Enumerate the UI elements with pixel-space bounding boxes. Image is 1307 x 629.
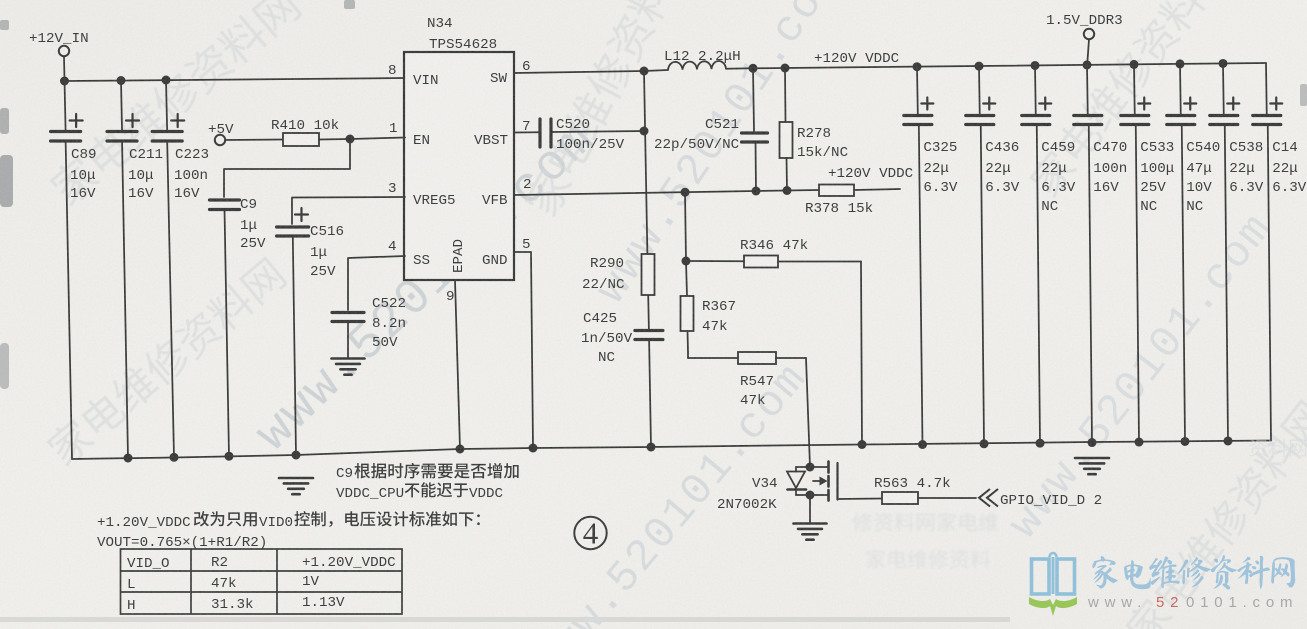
junction EPAD bottom	[456, 445, 465, 454]
junction L12 output	[749, 64, 758, 73]
wire SS pin4 to C522	[348, 256, 405, 310]
junction C9 bottom	[225, 452, 234, 461]
scan edge artifacts	[0, 0, 1307, 389]
resistor R346 47k	[686, 260, 744, 262]
watermark band 1	[46, 0, 303, 209]
bleed-through text 1	[852, 512, 998, 532]
wire R563 to GPIO port	[918, 497, 976, 499]
wire R410 to EN node	[319, 138, 350, 141]
wire GND pin5 to bottom bus	[514, 252, 533, 448]
junction R278 bottom	[783, 186, 792, 195]
resistor R367 47k	[686, 261, 687, 296]
capacitor C520 100n/25V	[538, 119, 541, 147]
wire +12V bus to VIN	[65, 78, 405, 81]
watermark band 2	[43, 254, 289, 469]
wire R547 down to V34 drain (crosses ground bus)	[806, 358, 810, 467]
wire +5V to R410	[225, 139, 283, 142]
capacitor C223	[166, 81, 167, 131]
wire VFB down to divider	[685, 192, 686, 261]
resistor R378 15k	[819, 185, 854, 197]
wire C521 top	[753, 68, 754, 131]
capacitor C89	[65, 81, 66, 131]
ground under V34	[794, 524, 827, 540]
capacitor C436	[978, 66, 981, 115]
wire R346 to ground bus	[861, 262, 862, 445]
junction SW node	[640, 67, 649, 76]
node 1.5V_DDR3 terminal	[1084, 29, 1094, 39]
resistor R563 4.7k	[882, 492, 918, 504]
junction snubber bottom	[647, 443, 656, 452]
junction C211 bottom	[124, 454, 133, 463]
inductor L12 2.2uH	[668, 61, 726, 70]
wire 1.5V_DDR3 down	[1087, 39, 1089, 65]
transistor V34 2N7002K	[806, 463, 815, 472]
sheet number circle 4	[574, 517, 606, 549]
wire +1.20V VDDC output bus	[753, 63, 1266, 68]
wire SW node down (snubber branch)	[644, 71, 645, 131]
node +5V terminal	[215, 135, 225, 145]
capacitor C14	[1265, 63, 1268, 115]
capacitor C521 22p/50V/NC	[742, 131, 768, 134]
wire V34 gate to R563	[838, 498, 883, 501]
wire VBST pin7 to C520	[514, 131, 540, 133]
capacitor C9	[210, 198, 240, 201]
wire EN node down to C9 branch	[224, 139, 350, 197]
junction EN node	[346, 135, 355, 144]
junction R346 bottom	[858, 440, 867, 449]
wire L12 to output node	[726, 67, 753, 70]
watermark band 4	[520, 0, 698, 219]
wire SW node to L12	[644, 70, 668, 71]
capacitor C522	[332, 311, 364, 314]
watermark band 9	[1122, 397, 1307, 629]
logo text	[1092, 555, 1295, 589]
wire C520 to SW vertical	[551, 131, 644, 132]
wire VREG5 pin3 to C516	[292, 197, 405, 224]
GPIO input chevrons	[979, 489, 998, 507]
resistor R547 47k	[687, 352, 689, 358]
logo book icon	[1032, 553, 1075, 594]
resistor R410 10k	[283, 133, 319, 146]
bleed-through text 2	[866, 549, 990, 569]
capacitor C470	[1086, 65, 1089, 115]
wire EN node to pin1	[350, 138, 405, 140]
junction divider node	[682, 257, 691, 266]
EPAD pin wire	[455, 280, 460, 449]
wire +12V_IN down	[63, 56, 66, 81]
wire SW pin6 to node	[514, 71, 644, 73]
junction C211 top	[117, 76, 126, 85]
capacitor C540	[1179, 64, 1182, 115]
junction C516 bottom	[292, 451, 301, 460]
junction C223 top	[162, 76, 171, 85]
wire V34 source to ground	[809, 495, 811, 523]
VID table frame	[121, 549, 403, 614]
wire VFB pin2	[514, 190, 819, 195]
ground under C516	[279, 478, 313, 494]
resistor R278 15k/NC	[784, 68, 787, 122]
ground under C470	[1075, 458, 1109, 474]
capacitor C211	[121, 81, 122, 131]
bleed-through text 3	[1249, 438, 1306, 456]
junction VFB divider	[681, 188, 690, 197]
capacitor C533	[1133, 64, 1136, 115]
capacitor C459	[1034, 65, 1037, 115]
junction C520 node	[640, 127, 649, 136]
junction R278 top	[781, 64, 790, 73]
junction C223 bottom	[170, 453, 179, 462]
capacitor C325	[916, 67, 919, 115]
junction GND5 bottom	[529, 444, 538, 453]
ground bus wire	[72, 441, 1271, 460]
resistor R290 22/NC	[642, 254, 655, 295]
capacitor C538	[1222, 63, 1225, 115]
capacitor C425 1n/50V NC	[635, 329, 663, 332]
capacitor C516	[277, 225, 309, 228]
watermark band 7	[1026, 0, 1234, 200]
op-amp/regulator IC N34 TPS54628 box	[404, 52, 514, 280]
junction C521 bottom	[752, 187, 761, 196]
junction C89 top	[60, 77, 69, 86]
node +12V_IN terminal	[59, 46, 69, 56]
ground under C522	[332, 359, 365, 375]
wire R378 to +120V VDDC	[854, 189, 900, 190]
